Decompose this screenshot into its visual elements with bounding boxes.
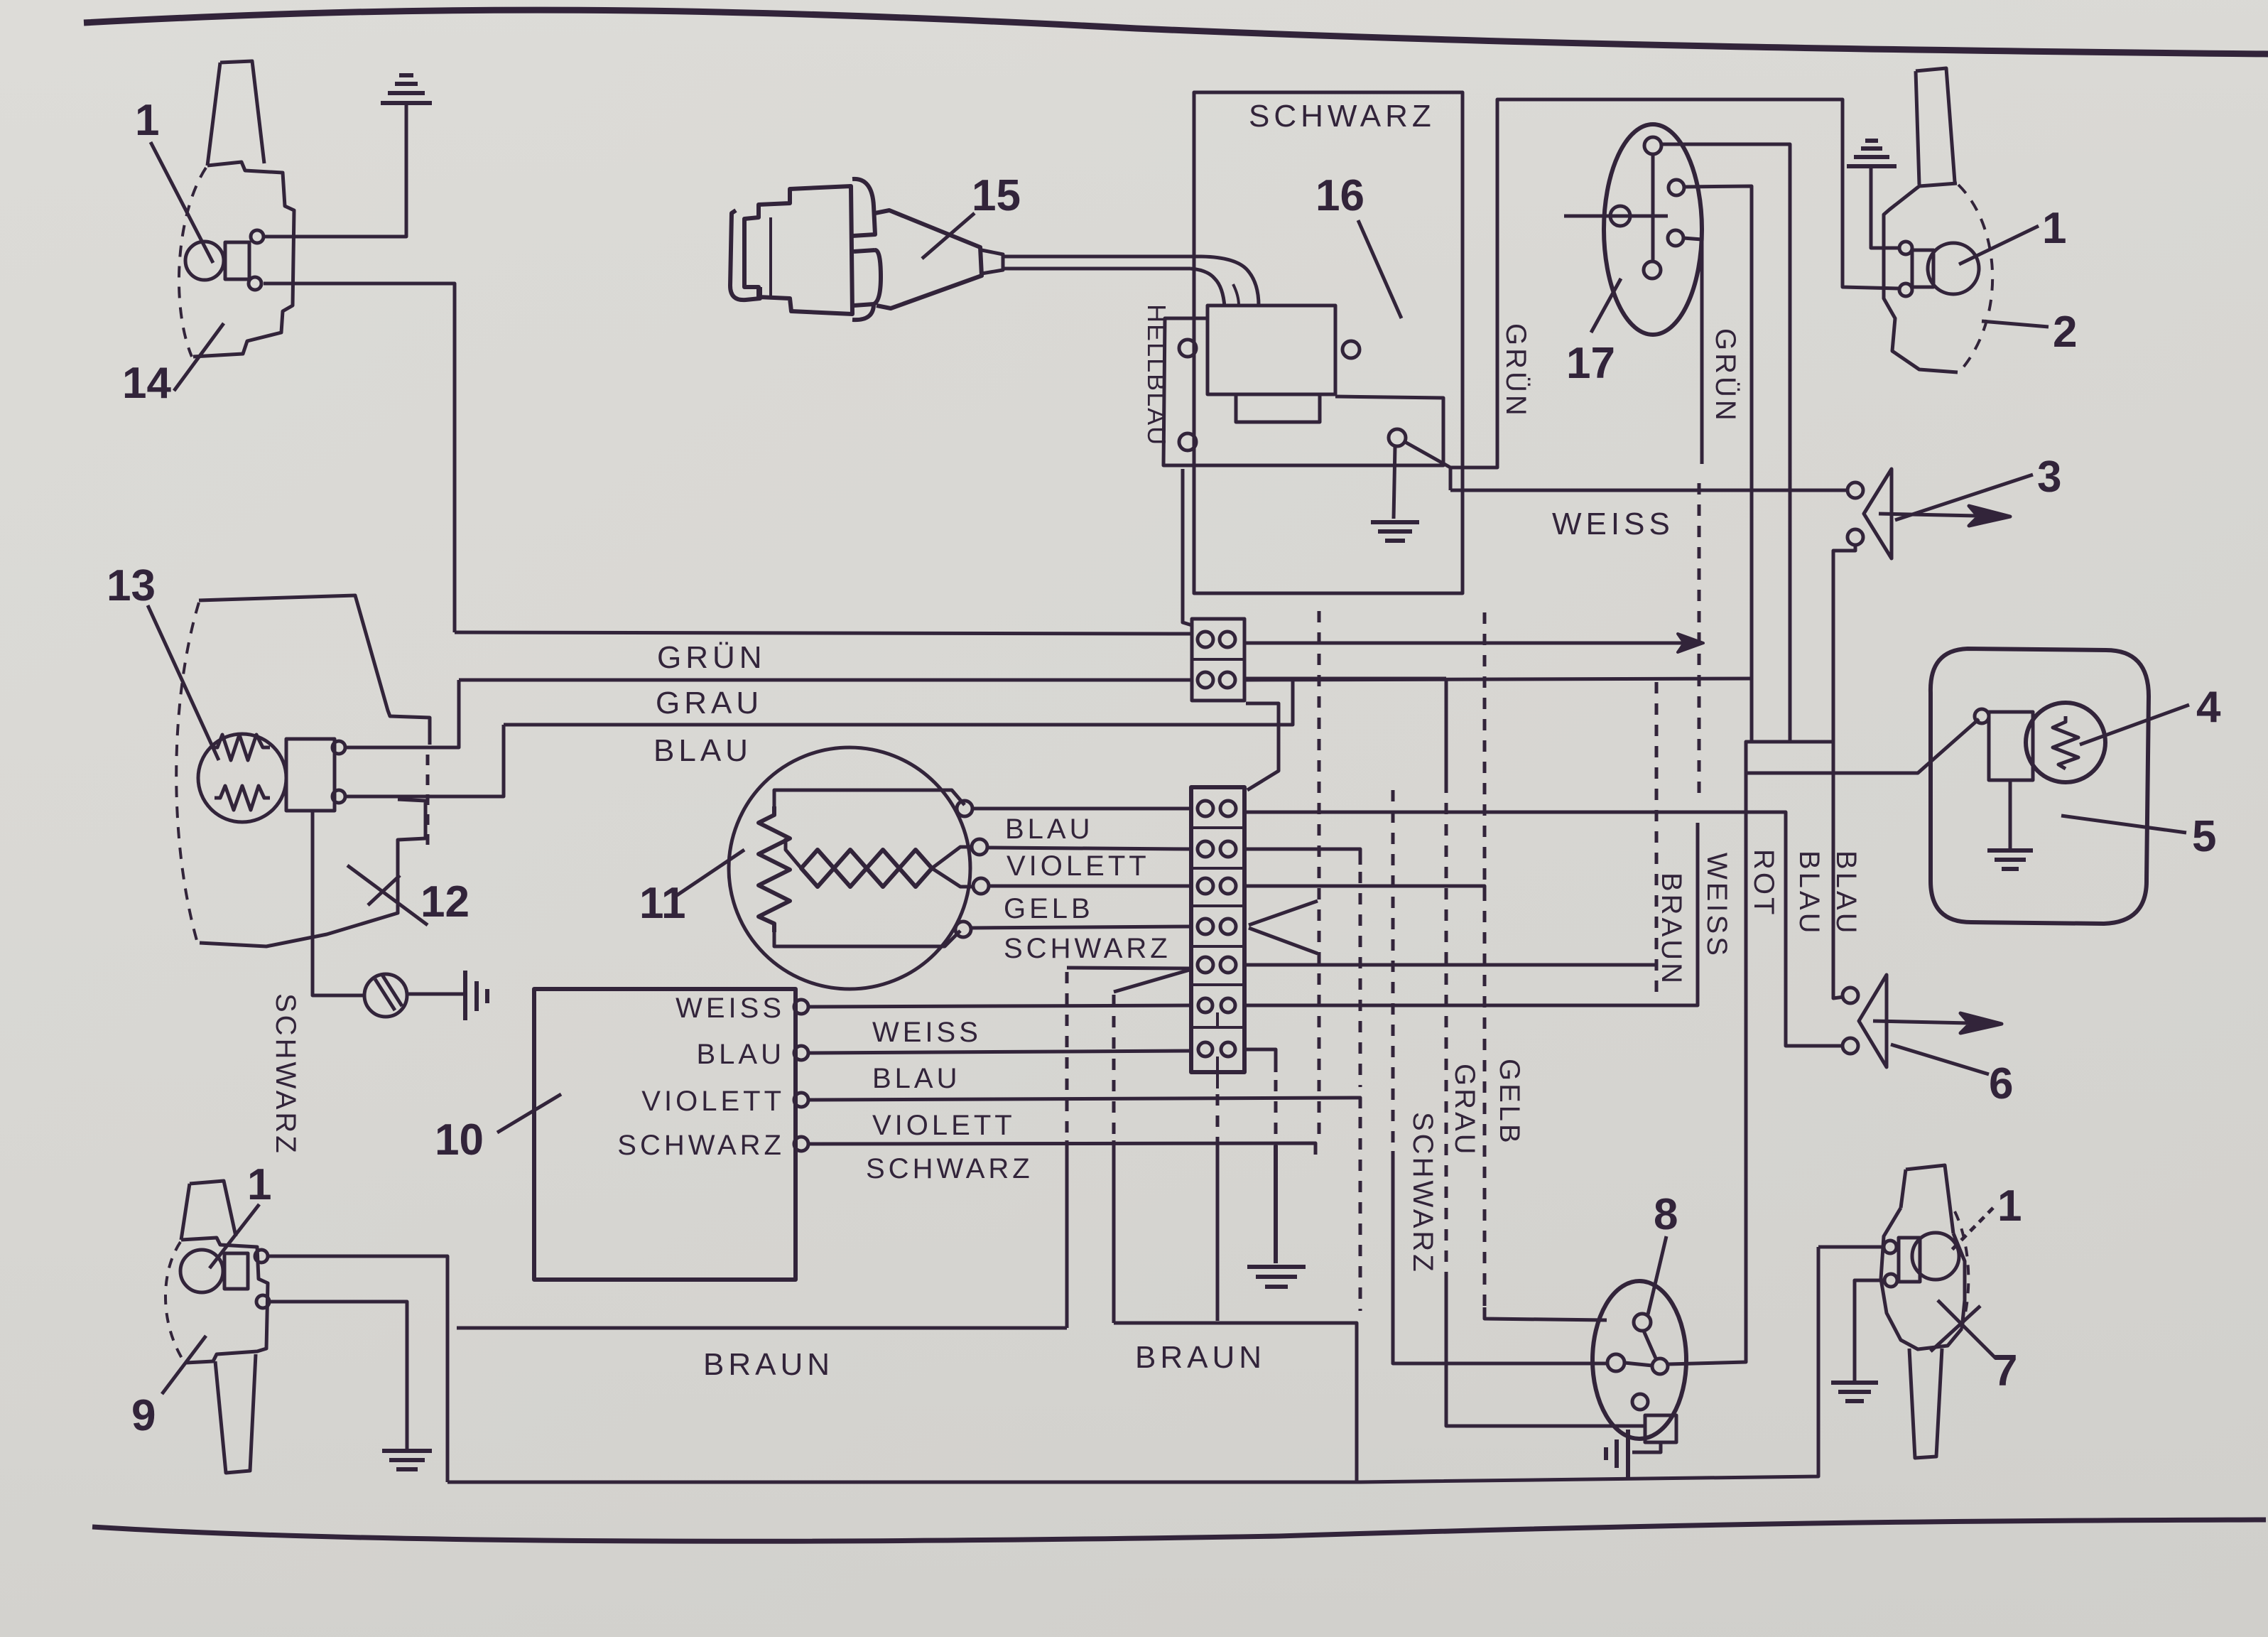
switch8 contact mid [1652, 1358, 1668, 1374]
svg-text:GELB: GELB [1004, 893, 1094, 924]
horn 6 terminal upper [1843, 988, 1858, 1003]
lamp 2 connector [1912, 250, 1933, 287]
tail light connector [1989, 712, 2033, 780]
lamp 9 leg [215, 1354, 256, 1473]
pointer 5 [2061, 816, 2186, 833]
wire upper block row1 to right with arrow [1244, 642, 1698, 645]
main terminal block [1191, 787, 1244, 1072]
lamp 14 terminal upper [251, 230, 264, 243]
svg-text:WEISS: WEISS [1701, 853, 1732, 958]
lamp 14 terminal lower [249, 277, 261, 290]
lamp 7 leg [1909, 1349, 1942, 1458]
brake light switch circle [364, 974, 407, 1017]
wire lamp9 lower terminal to ground [269, 1302, 407, 1449]
wire T4 to block row4 [971, 926, 1191, 928]
block contacts r7 [1198, 1042, 1212, 1057]
lamp 2 terminal lower [1899, 283, 1912, 296]
resistor top lead [774, 790, 965, 806]
svg-text:BRAUN: BRAUN [1135, 1340, 1266, 1375]
svg-text:SCHWARZ: SCHWARZ [617, 1130, 785, 1161]
wire switch circle to ground [407, 993, 464, 996]
headlamp 13 housing [199, 595, 430, 946]
solid tail GRAU to GELB run [1446, 1272, 1644, 1426]
svg-text:SCHWARZ: SCHWARZ [1407, 1112, 1438, 1275]
solid BRAUN riser A [1065, 1140, 1069, 1328]
svg-text:ROT: ROT [1748, 849, 1779, 917]
wire coil contact to WEISS node [1405, 442, 1497, 490]
wire BLAU from box10 to row7 [808, 1051, 1191, 1053]
horn 3 terminal lower [1848, 529, 1863, 545]
wire row3 right (GELB) [1244, 886, 1485, 901]
wire GRAU long [459, 679, 1192, 682]
lamp 9 connector [224, 1253, 248, 1289]
pointer line 14 [174, 323, 224, 391]
dashed SCHWARZ harness vertical [1318, 611, 1321, 1137]
svg-text:BRAUN: BRAUN [703, 1347, 834, 1382]
svg-text:17: 17 [1566, 339, 1615, 388]
coil left lead [786, 838, 801, 868]
upper block contacts row2 [1198, 672, 1213, 688]
svg-text:1: 1 [2042, 204, 2066, 253]
lamp 2 housing [1884, 183, 1958, 372]
svg-text:BLAU: BLAU [872, 1063, 961, 1094]
pointer 4 [2080, 705, 2189, 745]
upper terminal block [1192, 619, 1244, 701]
coil output contact [1389, 429, 1406, 446]
headlamp terminal lower [332, 790, 345, 803]
pointer 9 [162, 1336, 206, 1394]
box10 pin VIOLETT [794, 1093, 808, 1107]
magneto terminal T1 [957, 801, 972, 816]
lamp 14 connector [225, 242, 249, 279]
wire frame to switch area (GRUEN riser) [1450, 99, 1899, 468]
svg-text:SCHWARZ: SCHWARZ [1249, 99, 1436, 134]
svg-text:16: 16 [1315, 171, 1364, 220]
block contacts r3 [1198, 878, 1213, 894]
svg-text:5: 5 [2192, 812, 2216, 861]
turn signal lamp 9 (rear left) fin [181, 1181, 236, 1240]
screw top-left [1179, 340, 1196, 357]
switch 8 oval [1593, 1281, 1686, 1439]
pointer 17 [1591, 279, 1621, 333]
lamp 7 terminal lower [1884, 1274, 1897, 1287]
pointer 2 [1982, 321, 2049, 327]
magneto terminal T4 [955, 922, 971, 937]
switch 12 lever [347, 865, 428, 925]
svg-text:WEISS: WEISS [872, 1017, 982, 1048]
box 10 [534, 989, 796, 1280]
coil core U [1236, 394, 1320, 422]
staircase stub to BLAU riser [1790, 740, 1833, 744]
svg-text:GELB: GELB [1494, 1059, 1525, 1146]
tail light ground stem [2009, 780, 2012, 849]
svg-text:11: 11 [639, 879, 686, 928]
page bottom rule [92, 1520, 2266, 1541]
wire lamp2 upper terminal to ground [1871, 168, 1899, 248]
pointer 1 (lamp 7) [1950, 1208, 1993, 1252]
horn 3 body [1864, 469, 1892, 558]
ground (bottom left) [382, 1451, 432, 1469]
magneto resistor (lighting coil) [759, 806, 790, 932]
svg-text:BLAU: BLAU [1794, 850, 1825, 936]
lamp 2 dashed arc [1958, 185, 1992, 372]
coil box SCHWARZ 16 [1194, 92, 1463, 593]
lamp 7 connector [1899, 1238, 1920, 1282]
handlebar switch 17 [1604, 124, 1702, 335]
switch8 bottom connector [1645, 1415, 1676, 1442]
arrow tick [1678, 634, 1703, 652]
dashed BRAUN line [1655, 682, 1659, 1002]
wire headlamp lower terminal to BLAU [345, 725, 504, 796]
svg-text:14: 14 [122, 359, 171, 408]
ground (center bottom) [1247, 1145, 1306, 1287]
bulb 1 (lamp 9) [180, 1250, 223, 1292]
bottom long wire [447, 1247, 1818, 1482]
horn 6 terminal lower [1843, 1038, 1858, 1054]
svg-text:SCHWARZ: SCHWARZ [270, 993, 301, 1156]
wire WEISS from box10 to row6 [808, 1005, 1191, 1007]
svg-text:WEISS: WEISS [1552, 507, 1674, 541]
svg-text:6: 6 [1989, 1059, 2013, 1108]
BRAUN wire right segment [1114, 1323, 1357, 1482]
headlamp 13 dashed arc [176, 603, 199, 943]
svg-text:GRAU: GRAU [656, 686, 763, 720]
svg-text:HELLBLAU: HELLBLAU [1142, 304, 1171, 446]
upper block contacts row1 [1198, 632, 1213, 647]
ground (switch 8, left-facing) [1606, 1430, 1628, 1478]
lamp 2 terminal upper [1899, 242, 1912, 254]
turn signal lamp 14 housing dashed arc [179, 168, 206, 357]
block center ticks [1216, 1012, 1219, 1088]
wire lamp9 upper terminal to bottom run [268, 1256, 447, 1482]
wire row6 right (WEISS) [1244, 823, 1698, 1005]
wire switch17 mid contact right [1684, 186, 1752, 742]
pointer 3 [1895, 475, 2033, 520]
horn 3 arrow [1879, 506, 2010, 526]
pointer 6 [1891, 1044, 1989, 1074]
coil right lead to T2 [932, 847, 972, 868]
pointer 16 [1358, 220, 1401, 318]
svg-text:3: 3 [2037, 453, 2061, 502]
spark plug nipple [982, 250, 1003, 274]
svg-text:9: 9 [131, 1391, 156, 1440]
switch 17 rotor [1651, 154, 1655, 261]
wire row1 right (BLAU) down to horn 6 lower terminal [1244, 812, 1843, 1046]
tail light housing 5 [1931, 649, 2149, 924]
ground (lamp 7) [1831, 1383, 1878, 1401]
dashed vertical GRAU right [1445, 679, 1448, 782]
ground (tail light) [1987, 850, 2033, 869]
solid tail of mid1 to BRAUN2 [1216, 1144, 1220, 1321]
dashed linkage from headlamp [426, 755, 430, 849]
svg-text:VIOLETT: VIOLETT [872, 1110, 1016, 1141]
wire lamp14 lower terminal down left side [264, 283, 455, 632]
dashed BRAUN riser A [1065, 972, 1069, 1140]
switch17 contact left [1610, 206, 1630, 226]
screw mid-right [1342, 341, 1360, 358]
box10 pin SCHWARZ [794, 1137, 808, 1151]
switch8 contact left [1607, 1354, 1624, 1371]
block contacts r6 [1198, 998, 1212, 1012]
svg-text:1: 1 [135, 96, 159, 145]
svg-text:WEISS: WEISS [675, 993, 785, 1024]
lamp 7 terminal upper [1884, 1241, 1897, 1253]
box10 pin WEISS [794, 1000, 808, 1014]
wire GRUEN long right end [1244, 679, 1752, 680]
wire row5 right [1244, 963, 1656, 967]
bulb 4 filament [2053, 716, 2078, 769]
solid BRAUN riser B [1112, 1140, 1116, 1323]
box10 pin BLAU [794, 1046, 808, 1060]
pointer 7 [1931, 1300, 1996, 1358]
svg-text:BLAU: BLAU [653, 733, 752, 768]
lamp 9 terminal lower [256, 1295, 269, 1308]
spark plug flange bands [852, 179, 881, 320]
block contacts r1 [1198, 801, 1213, 816]
hatch in switch circle [375, 975, 402, 1010]
wire GELB to switch 8 top contact [1485, 1307, 1607, 1320]
wire row2 right to VIOLETT link [1244, 849, 1360, 865]
ground (top right) [1847, 141, 1897, 166]
wire switch17 top contact to ROT line [1661, 144, 1790, 1364]
spark plug cone [875, 210, 982, 308]
switch17 contact lowmid [1668, 230, 1683, 246]
wire coil contact to ground [1394, 446, 1395, 519]
spark plug 15 electrode hook [730, 210, 760, 300]
block contacts r4 [1198, 919, 1213, 934]
switch 17 lever [1564, 215, 1668, 218]
svg-text:12: 12 [420, 877, 470, 926]
flywheel magneto 11 [729, 747, 970, 989]
block contacts r2 [1198, 841, 1213, 857]
tail light bulb 4 [2026, 703, 2105, 782]
wire headlamp upper terminal to GRAU [345, 680, 459, 747]
turn signal lamp 2 (front right) fin [1916, 68, 1955, 185]
pointer arrows at row4 [1249, 901, 1318, 953]
wire T3 to block row3 [989, 885, 1191, 888]
link diagonal block to upper block [1246, 703, 1279, 790]
dashed vertical SCHWARZ right [1391, 790, 1395, 1151]
svg-text:VIOLETT: VIOLETT [1007, 850, 1150, 882]
horn 3 terminal upper [1848, 482, 1863, 498]
dashed tail below VIOLETT corner [1359, 1117, 1362, 1311]
wire VIOLETT from box10 [808, 1098, 1360, 1108]
switch8 contact top [1634, 1314, 1651, 1331]
headlamp connector [286, 739, 335, 811]
headlamp terminal upper [332, 741, 345, 754]
boot curve detail [1233, 284, 1239, 306]
pointer 1 (lamp 2) [1959, 226, 2039, 264]
dashed row7 tail [1274, 1080, 1278, 1145]
pointer 10 [497, 1094, 561, 1133]
bulb 1 (lamp 14) [185, 242, 224, 280]
wire GRUEN long [455, 632, 1192, 634]
coil body [1208, 306, 1335, 394]
magneto terminal T3 [973, 878, 989, 894]
BRAUN wire left segment [457, 1327, 1067, 1330]
horn 6 body [1859, 975, 1887, 1067]
wire switch8 bottom to ground [1632, 1442, 1661, 1452]
svg-text:BRAUN: BRAUN [1656, 872, 1687, 986]
switch 12 cross stroke [368, 875, 400, 905]
ignition coil boot [1190, 256, 1259, 307]
wire SCHWARZ from headlamp connector down [313, 811, 364, 995]
headlamp filament lower [215, 786, 270, 810]
dashed GRUEN right tail [1698, 483, 1701, 796]
svg-text:GRÜN: GRÜN [1710, 328, 1741, 423]
svg-text:BLAU: BLAU [1830, 850, 1862, 936]
dashed VIOLETT link [1359, 872, 1362, 1087]
wire lamp14 upper terminal to ground [264, 103, 406, 237]
switch17 contact top [1644, 137, 1661, 154]
wire lamp7 upper terminal [1818, 1246, 1884, 1249]
wire SCHWARZ right to switch 8 left contact [1393, 1151, 1607, 1363]
bulb 1 (lamp 2) [1928, 243, 1979, 294]
lamp 9 terminal upper [255, 1250, 268, 1263]
pointer line 13 to bulb [148, 605, 219, 760]
svg-text:BLAU: BLAU [697, 1039, 786, 1070]
turn signal lamp 14 housing [193, 162, 294, 357]
wire lamp7 lower terminal to ground [1855, 1280, 1884, 1381]
coil right lead to T3 [932, 868, 973, 887]
svg-text:15: 15 [972, 171, 1021, 220]
switch17 contact bottom [1644, 261, 1661, 279]
spark plug body [744, 186, 852, 314]
bulb 1 (lamp 7) [1912, 1233, 1959, 1280]
horn 6 arrow [1873, 1013, 2002, 1033]
svg-text:GRÜN: GRÜN [1500, 323, 1531, 418]
svg-text:7: 7 [1993, 1346, 2017, 1395]
lamp 9 housing [181, 1238, 268, 1363]
svg-text:VIOLETT: VIOLETT [641, 1086, 785, 1117]
dashed GELB vertical [1483, 612, 1487, 1307]
headlamp bulb [198, 734, 286, 822]
dashed vertical mid1 [1216, 1094, 1220, 1144]
svg-text:GRAU: GRAU [1449, 1064, 1480, 1157]
pointer 1 to bulb 9 [210, 1204, 259, 1268]
svg-text:2: 2 [2053, 308, 2077, 357]
svg-text:1: 1 [1997, 1182, 2022, 1231]
magneto terminal T2 [972, 839, 987, 855]
spark plug inner line [769, 217, 772, 297]
WEISS wire to horn 3 [1450, 489, 1848, 492]
block cell lines [1191, 828, 1244, 1027]
page top rule [84, 10, 2268, 54]
coil base plate [1163, 306, 1443, 465]
screw bottom-left [1179, 433, 1196, 450]
lamp 9 dashed arc [166, 1242, 185, 1363]
svg-text:8: 8 [1654, 1190, 1678, 1239]
block contacts r5 [1198, 957, 1213, 973]
pointer 11 [675, 850, 744, 897]
lamp 7 housing [1881, 1208, 1965, 1349]
tail lamp 7 fin [1901, 1165, 1953, 1233]
ground (top left) [381, 75, 432, 103]
switch8 contact bottom [1632, 1394, 1648, 1410]
pointer 8 [1648, 1236, 1666, 1314]
svg-text:1: 1 [247, 1160, 271, 1209]
headlamp filament upper [212, 735, 270, 760]
pointer line 1 to bulb [151, 142, 213, 263]
resistor bottom lead [774, 931, 960, 946]
turn signal lamp 14 (front left) fin [207, 61, 264, 166]
svg-text:10: 10 [435, 1115, 484, 1165]
wire T2 to block row2 [987, 848, 1191, 849]
wire row7 right corner [1244, 1049, 1276, 1072]
dashed BRAUN riser B [1112, 995, 1116, 1140]
switch17 contact mid [1669, 180, 1684, 195]
svg-text:BLAU: BLAU [1005, 814, 1094, 845]
svg-text:4: 4 [2196, 683, 2221, 732]
ignition cable to coil [1003, 256, 1202, 269]
wire HELLBLAU down to upper terminal block [1183, 469, 1192, 625]
wire BLAU long [504, 679, 1446, 725]
pointer 15 [922, 213, 975, 259]
svg-text:SCHWARZ: SCHWARZ [1004, 933, 1171, 964]
wire SCHWARZ from box10 [808, 1143, 1315, 1155]
svg-text:GRÜN: GRÜN [657, 640, 766, 675]
wire tail light feed horizontal [1746, 719, 1979, 773]
ground (under coil) [1371, 522, 1419, 541]
switch8 lever [1624, 1331, 1656, 1366]
magneto ignition coil diamonds [801, 850, 932, 887]
wire horn3 lower terminal down to horn6 upper (BLAU) [1833, 545, 1855, 998]
svg-text:SCHWARZ: SCHWARZ [866, 1153, 1033, 1184]
wire switch17 lowmid contact down (GRUEN right) [1683, 238, 1702, 464]
wire row5 left pointer [1067, 968, 1190, 992]
tail light terminal [1975, 709, 1989, 723]
svg-text:13: 13 [107, 561, 156, 610]
wire T1 to block row1 [972, 807, 1191, 811]
lamp 7 dashed arc [1955, 1211, 1968, 1331]
ground (right-facing, mid left) [465, 971, 487, 1020]
